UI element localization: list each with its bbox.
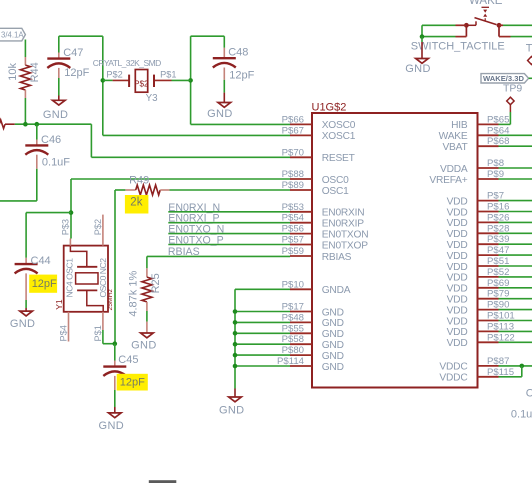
C45 value 12pF bbox=[120, 377, 145, 389]
junction dot bbox=[101, 78, 106, 83]
test point TP9 bbox=[507, 97, 514, 112]
pin P$52 (VDD) bbox=[447, 267, 510, 284]
pin P$89 (OSC1) bbox=[282, 180, 350, 197]
svg-text:P$3: P$3 bbox=[60, 219, 70, 235]
wire bbox=[499, 178, 532, 180]
wire bbox=[103, 343, 115, 345]
GND label bbox=[131, 339, 157, 351]
wire bbox=[24, 98, 26, 124]
wire bbox=[168, 211, 290, 213]
wire bbox=[147, 255, 290, 257]
wire bbox=[25, 213, 27, 258]
svg-text:P$17: P$17 bbox=[282, 302, 304, 313]
svg-text:0.1uF: 0.1uF bbox=[42, 156, 70, 168]
svg-text:WAKE/3.3D: WAKE/3.3D bbox=[483, 74, 524, 83]
svg-text:RBIAS: RBIAS bbox=[322, 252, 352, 263]
svg-text:EN0TXOP: EN0TXOP bbox=[322, 240, 369, 251]
wire bbox=[499, 330, 532, 332]
wire bbox=[103, 79, 113, 81]
Y1 pin P$1 bbox=[93, 312, 103, 342]
wire bbox=[58, 36, 60, 52]
pin P$55 (GND) bbox=[282, 323, 344, 340]
svg-text:GND: GND bbox=[219, 405, 245, 417]
svg-text:P$67: P$67 bbox=[282, 125, 304, 136]
pin P$28 (VDD) bbox=[447, 223, 510, 240]
svg-text:3/4.1A: 3/4.1A bbox=[1, 31, 24, 40]
svg-text:Y3: Y3 bbox=[146, 93, 159, 104]
pin P$67 (XOSC1) bbox=[282, 125, 356, 142]
svg-text:R49: R49 bbox=[129, 174, 149, 186]
resistor (cropped at left edge) bbox=[0, 120, 15, 129]
wire bbox=[59, 35, 103, 37]
wire bbox=[235, 288, 290, 290]
svg-text:GND: GND bbox=[131, 339, 157, 351]
pin P$58 (GND) bbox=[282, 334, 344, 351]
pin P$57 (EN0TXOP) bbox=[282, 235, 369, 252]
junction dot bbox=[188, 78, 193, 83]
junction dot bbox=[520, 364, 525, 369]
wire bbox=[25, 308, 27, 311]
wire bbox=[421, 37, 423, 42]
GND label bbox=[207, 108, 233, 120]
R44 name bbox=[29, 62, 41, 82]
wire bbox=[235, 332, 290, 334]
wire bbox=[499, 298, 532, 300]
capacitor C48 bbox=[213, 48, 236, 80]
svg-text:GNDA: GNDA bbox=[322, 285, 351, 296]
svg-text:P$66: P$66 bbox=[282, 114, 304, 125]
wire bbox=[15, 123, 92, 125]
svg-text:VDD: VDD bbox=[447, 262, 468, 273]
R49 name bbox=[129, 174, 149, 186]
svg-text:NC4 OSC1: NC4 OSC1 bbox=[65, 258, 75, 298]
svg-text:C48: C48 bbox=[228, 47, 248, 59]
wire bbox=[36, 124, 38, 139]
wire bbox=[25, 300, 27, 308]
net label EN0TXO_N bbox=[168, 224, 224, 236]
wire bbox=[503, 24, 532, 26]
svg-text:U1G$2: U1G$2 bbox=[312, 101, 347, 113]
Y1 pin name OSC1/NC4 bbox=[65, 258, 75, 298]
svg-text:P$1: P$1 bbox=[93, 325, 103, 341]
svg-text:VDDC: VDDC bbox=[439, 373, 467, 384]
wire bbox=[172, 79, 191, 81]
svg-text:Y1: Y1 bbox=[54, 299, 64, 310]
junction dot bbox=[233, 320, 238, 325]
svg-text:12pF: 12pF bbox=[229, 69, 254, 81]
ground bbox=[20, 311, 33, 316]
svg-text:12pF: 12pF bbox=[32, 278, 57, 290]
wire bbox=[422, 24, 456, 26]
crystal Y1 bbox=[64, 246, 108, 312]
wire bbox=[235, 354, 290, 356]
svg-text:P$89: P$89 bbox=[282, 180, 304, 191]
svg-text:TP9: TP9 bbox=[503, 83, 522, 95]
wire bbox=[511, 36, 532, 38]
pin P$87 (VDDC) bbox=[439, 356, 509, 373]
svg-text:VREFA+: VREFA+ bbox=[429, 175, 467, 186]
wire bbox=[114, 190, 116, 344]
svg-text:CRYATL_32K_SMD: CRYATL_32K_SMD bbox=[93, 58, 161, 68]
wire bbox=[499, 254, 532, 256]
C46 value 0.1uF bbox=[42, 156, 70, 168]
R25 name bbox=[150, 273, 162, 293]
svg-text:0.1u: 0.1u bbox=[511, 408, 532, 420]
wire bbox=[115, 189, 125, 191]
switch SWITCH_TACTILE bbox=[456, 7, 511, 36]
wire bbox=[499, 287, 532, 289]
svg-text:P$10: P$10 bbox=[282, 279, 304, 290]
ground bbox=[416, 59, 429, 64]
pin P$101 (VDD) bbox=[447, 311, 515, 328]
wire bbox=[114, 344, 116, 361]
net label EN0RXI_P bbox=[168, 213, 219, 225]
wire bbox=[499, 276, 532, 278]
svg-text:WAKE: WAKE bbox=[439, 131, 468, 142]
svg-text:SWITCH_TACTILE: SWITCH_TACTILE bbox=[411, 41, 505, 53]
R44 value 10k bbox=[7, 63, 19, 81]
wire bbox=[36, 169, 38, 201]
svg-text:C47: C47 bbox=[63, 47, 83, 59]
Y1 pin P$2 bbox=[93, 215, 103, 246]
C46 name bbox=[41, 134, 61, 146]
svg-text:P$57: P$57 bbox=[282, 235, 304, 246]
pin P$53 (EN0RXIN) bbox=[282, 202, 365, 219]
Y1 pin P$4 bbox=[59, 312, 69, 342]
test point (cropped) bbox=[526, 43, 532, 65]
wire bbox=[26, 212, 71, 214]
svg-text:P$2: P$2 bbox=[93, 219, 103, 235]
wire bbox=[102, 330, 104, 344]
svg-text:OSC1: OSC1 bbox=[322, 186, 349, 197]
pin P$90 (VDD) bbox=[447, 300, 510, 317]
svg-text:P$114: P$114 bbox=[277, 356, 305, 367]
wire bbox=[234, 389, 236, 398]
pin P$10 (GNDA) bbox=[282, 279, 351, 296]
capacitor (cropped) value 0.1u bbox=[511, 408, 532, 420]
net label WAKE/3.3D bbox=[481, 74, 529, 83]
wire bbox=[24, 40, 26, 58]
svg-text:GND: GND bbox=[207, 108, 233, 120]
wire bbox=[499, 376, 522, 378]
svg-text:VDD: VDD bbox=[447, 295, 468, 306]
svg-text:GND: GND bbox=[322, 351, 344, 362]
svg-text:2k: 2k bbox=[130, 197, 142, 209]
svg-text:VDD: VDD bbox=[447, 316, 468, 327]
wire bbox=[103, 134, 290, 136]
svg-text:GND: GND bbox=[10, 318, 36, 330]
wire bbox=[235, 365, 290, 367]
svg-text:GND: GND bbox=[322, 329, 344, 340]
svg-text:GND: GND bbox=[322, 318, 344, 329]
wire bbox=[114, 407, 116, 413]
svg-text:VDD: VDD bbox=[447, 284, 468, 295]
Y1 value 25MHz bbox=[107, 288, 114, 310]
wire bbox=[71, 178, 290, 180]
wire bbox=[499, 320, 532, 322]
wire bbox=[58, 78, 60, 96]
crystal Y3 bbox=[113, 70, 172, 93]
GND label bbox=[405, 63, 431, 75]
R25 value 4.87k 1% bbox=[127, 271, 139, 317]
svg-text:OSC0: OSC0 bbox=[322, 175, 349, 186]
junction dot bbox=[35, 122, 40, 127]
Y3 pin P$1 label bbox=[160, 69, 176, 79]
pin P$7 (VDD) bbox=[447, 191, 505, 208]
svg-text:VDD: VDD bbox=[447, 327, 468, 338]
C48 name bbox=[228, 47, 248, 59]
wire bbox=[168, 222, 290, 224]
wire bbox=[499, 167, 532, 169]
svg-text:EN0TXON: EN0TXON bbox=[322, 229, 369, 240]
wire bbox=[499, 265, 532, 267]
junction dot bbox=[69, 210, 74, 215]
C44 value 12pF bbox=[32, 278, 57, 290]
wire bbox=[70, 179, 72, 239]
pin P$68 (VBAT) bbox=[442, 136, 509, 153]
svg-text:VDDC: VDDC bbox=[439, 362, 467, 373]
svg-text:GND: GND bbox=[322, 340, 344, 351]
svg-text:GND: GND bbox=[322, 362, 344, 373]
wire bbox=[499, 232, 532, 234]
svg-text:P$54: P$54 bbox=[282, 213, 305, 224]
wire bbox=[223, 93, 225, 103]
net label RBIAS bbox=[168, 246, 200, 258]
svg-text:VDD: VDD bbox=[447, 305, 468, 316]
wire bbox=[91, 156, 290, 158]
svg-text:P$4: P$4 bbox=[59, 325, 69, 341]
pin P$51 (VDD) bbox=[447, 256, 510, 273]
GND label bbox=[219, 405, 245, 417]
Y1 name bbox=[54, 299, 64, 310]
svg-text:12pF: 12pF bbox=[120, 377, 145, 389]
junction dot bbox=[23, 122, 28, 127]
pin P$70 (RESET) bbox=[282, 147, 355, 164]
ground bbox=[141, 333, 154, 338]
svg-text:C46: C46 bbox=[41, 134, 61, 146]
svg-text:VDD: VDD bbox=[447, 240, 468, 251]
GND label bbox=[43, 109, 69, 121]
ground bbox=[53, 100, 66, 105]
capacitor C44 bbox=[15, 258, 38, 300]
svg-text:P$53: P$53 bbox=[282, 202, 304, 213]
wire bbox=[146, 311, 148, 322]
svg-text:VDD: VDD bbox=[447, 218, 468, 229]
wire bbox=[223, 36, 225, 48]
svg-text:HIB: HIB bbox=[451, 120, 468, 131]
pin P$115 (VDDC) bbox=[439, 367, 514, 384]
svg-text:XOSC1: XOSC1 bbox=[322, 131, 356, 142]
svg-text:P$2: P$2 bbox=[134, 80, 149, 89]
frame mark (cropped) bbox=[149, 480, 177, 483]
TP9 name bbox=[503, 83, 522, 95]
IC U1G$2 bbox=[312, 101, 478, 387]
wire bbox=[191, 35, 225, 37]
wire bbox=[499, 243, 532, 245]
C48 value 12pF bbox=[229, 69, 254, 81]
resistor R49 bbox=[125, 185, 169, 195]
wire bbox=[499, 365, 532, 367]
wire bbox=[170, 189, 291, 191]
net label WAKE (cropped) bbox=[469, 0, 503, 7]
wire bbox=[499, 145, 532, 147]
svg-text:25MHz: 25MHz bbox=[107, 288, 114, 310]
Y3 name bbox=[146, 93, 159, 104]
svg-text:4.87k 1%: 4.87k 1% bbox=[127, 271, 139, 317]
svg-text:P$58: P$58 bbox=[282, 334, 304, 345]
svg-text:P$70: P$70 bbox=[282, 147, 304, 158]
pin P$17 (GND) bbox=[282, 302, 344, 319]
wire bbox=[58, 96, 60, 101]
capacitor C46 bbox=[25, 140, 48, 169]
Y3 pin P$2 label bbox=[106, 69, 122, 79]
wire bbox=[146, 322, 148, 333]
wire bbox=[102, 36, 104, 135]
svg-text:P$48: P$48 bbox=[282, 312, 304, 323]
Y1 pin P$3 bbox=[60, 219, 70, 246]
svg-text:WAKE: WAKE bbox=[469, 0, 503, 7]
svg-text:C44: C44 bbox=[31, 255, 51, 267]
pin P$113 (VDD) bbox=[447, 321, 514, 338]
pin P$122 (VDD) bbox=[447, 332, 515, 349]
pin P$65 (HIB) bbox=[451, 114, 509, 131]
C47 name bbox=[63, 47, 83, 59]
svg-text:VDD: VDD bbox=[447, 251, 468, 262]
C45 name bbox=[118, 354, 138, 366]
svg-text:VDD: VDD bbox=[447, 196, 468, 207]
ground bbox=[218, 103, 231, 108]
svg-text:VDD: VDD bbox=[447, 229, 468, 240]
pin P$66 (XOSC0) bbox=[282, 114, 356, 131]
wire bbox=[499, 123, 511, 125]
wire bbox=[168, 244, 290, 246]
wire bbox=[235, 321, 290, 323]
svg-text:VDD: VDD bbox=[447, 273, 468, 284]
ground bbox=[109, 413, 122, 418]
svg-text:RESET: RESET bbox=[322, 153, 355, 164]
svg-text:P$55: P$55 bbox=[282, 323, 304, 334]
pin P$48 (GND) bbox=[282, 312, 344, 329]
svg-text:R25: R25 bbox=[150, 273, 162, 293]
highlight bbox=[29, 275, 57, 293]
junction dot bbox=[233, 364, 238, 369]
wire bbox=[499, 221, 532, 223]
junction dot bbox=[233, 353, 238, 358]
junction dot bbox=[113, 341, 118, 346]
wire bbox=[235, 311, 290, 313]
svg-text:P$88: P$88 bbox=[282, 169, 304, 180]
svg-text:TP: TP bbox=[526, 43, 532, 55]
pin P$79 (VDD) bbox=[447, 289, 510, 306]
svg-text:12pF: 12pF bbox=[64, 67, 89, 79]
pin P$64 (WAKE) bbox=[439, 125, 510, 142]
svg-text:10k: 10k bbox=[7, 63, 19, 81]
wire bbox=[499, 309, 532, 311]
wire bbox=[499, 200, 532, 202]
junction dot bbox=[420, 34, 425, 39]
net label EN0TXO_P bbox=[168, 235, 223, 247]
svg-text:VDD: VDD bbox=[447, 338, 468, 349]
wire bbox=[499, 341, 532, 343]
switch name bbox=[411, 41, 505, 53]
pin P$56 (EN0TXON) bbox=[282, 224, 369, 241]
pin P$16 (VDD) bbox=[447, 202, 510, 219]
wire bbox=[499, 134, 532, 136]
svg-text:P$59: P$59 bbox=[282, 246, 304, 257]
pin P$114 (GND) bbox=[277, 356, 344, 373]
pin P$39 (VDD) bbox=[447, 234, 510, 251]
Y3 label CRYATL_32K_SMD bbox=[93, 58, 161, 68]
net label EN0RXI_N bbox=[168, 202, 220, 214]
wire bbox=[0, 200, 37, 202]
pin P$9 (VREFA+) bbox=[429, 169, 504, 186]
pin P$54 (EN0RXIP) bbox=[282, 213, 365, 230]
pin P$59 (RBIAS) bbox=[282, 246, 352, 263]
svg-text:P$80: P$80 bbox=[282, 345, 304, 356]
ground bbox=[229, 397, 242, 402]
wire bbox=[191, 123, 290, 125]
svg-text:EN0RXIN: EN0RXIN bbox=[322, 208, 365, 219]
svg-text:R44: R44 bbox=[29, 62, 41, 82]
svg-text:GND: GND bbox=[322, 307, 344, 318]
wire bbox=[168, 233, 290, 235]
capacitor C47 bbox=[47, 53, 70, 79]
wire bbox=[114, 390, 116, 407]
svg-text:XOSC0: XOSC0 bbox=[322, 120, 356, 131]
wire bbox=[521, 366, 523, 377]
junction dot bbox=[233, 309, 238, 314]
GND label bbox=[10, 318, 36, 330]
wire bbox=[422, 36, 456, 38]
highlight bbox=[125, 195, 148, 214]
wire bbox=[421, 42, 423, 59]
pin P$69 (VDD) bbox=[447, 278, 510, 295]
pin P$26 (VDD) bbox=[447, 212, 510, 229]
pin P$47 (VDD) bbox=[447, 245, 510, 262]
pin P$88 (OSC0) bbox=[282, 169, 350, 186]
wire bbox=[235, 343, 290, 345]
wire bbox=[190, 36, 192, 124]
svg-text:EN0RXIP: EN0RXIP bbox=[322, 219, 365, 230]
wire bbox=[146, 256, 148, 268]
C47 value 12pF bbox=[64, 67, 89, 79]
C44 name bbox=[31, 255, 51, 267]
svg-text:GND: GND bbox=[99, 420, 125, 432]
svg-text:P$2: P$2 bbox=[106, 69, 122, 79]
wire bbox=[223, 80, 225, 93]
pin P$8 (VDDA) bbox=[440, 158, 504, 175]
highlight bbox=[117, 374, 148, 391]
capacitor (cropped) name C bbox=[526, 387, 532, 399]
junction dot bbox=[233, 331, 238, 336]
Y1 pin name NC2/OSC0 bbox=[98, 258, 108, 298]
svg-text:C: C bbox=[526, 387, 532, 399]
svg-text:P$56: P$56 bbox=[282, 224, 304, 235]
capacitor C45 bbox=[103, 361, 126, 391]
svg-text:P$1: P$1 bbox=[160, 69, 176, 79]
wire bbox=[509, 112, 511, 124]
wire bbox=[529, 77, 532, 79]
GND label bbox=[99, 420, 125, 432]
svg-text:VBAT: VBAT bbox=[442, 142, 467, 153]
junction dot bbox=[233, 342, 238, 347]
wire bbox=[90, 124, 92, 157]
pin P$80 (GND) bbox=[282, 345, 344, 362]
svg-text:C45: C45 bbox=[118, 354, 138, 366]
net label 3/4.1A bbox=[0, 28, 25, 41]
wire bbox=[499, 211, 532, 213]
wire bbox=[234, 289, 236, 388]
